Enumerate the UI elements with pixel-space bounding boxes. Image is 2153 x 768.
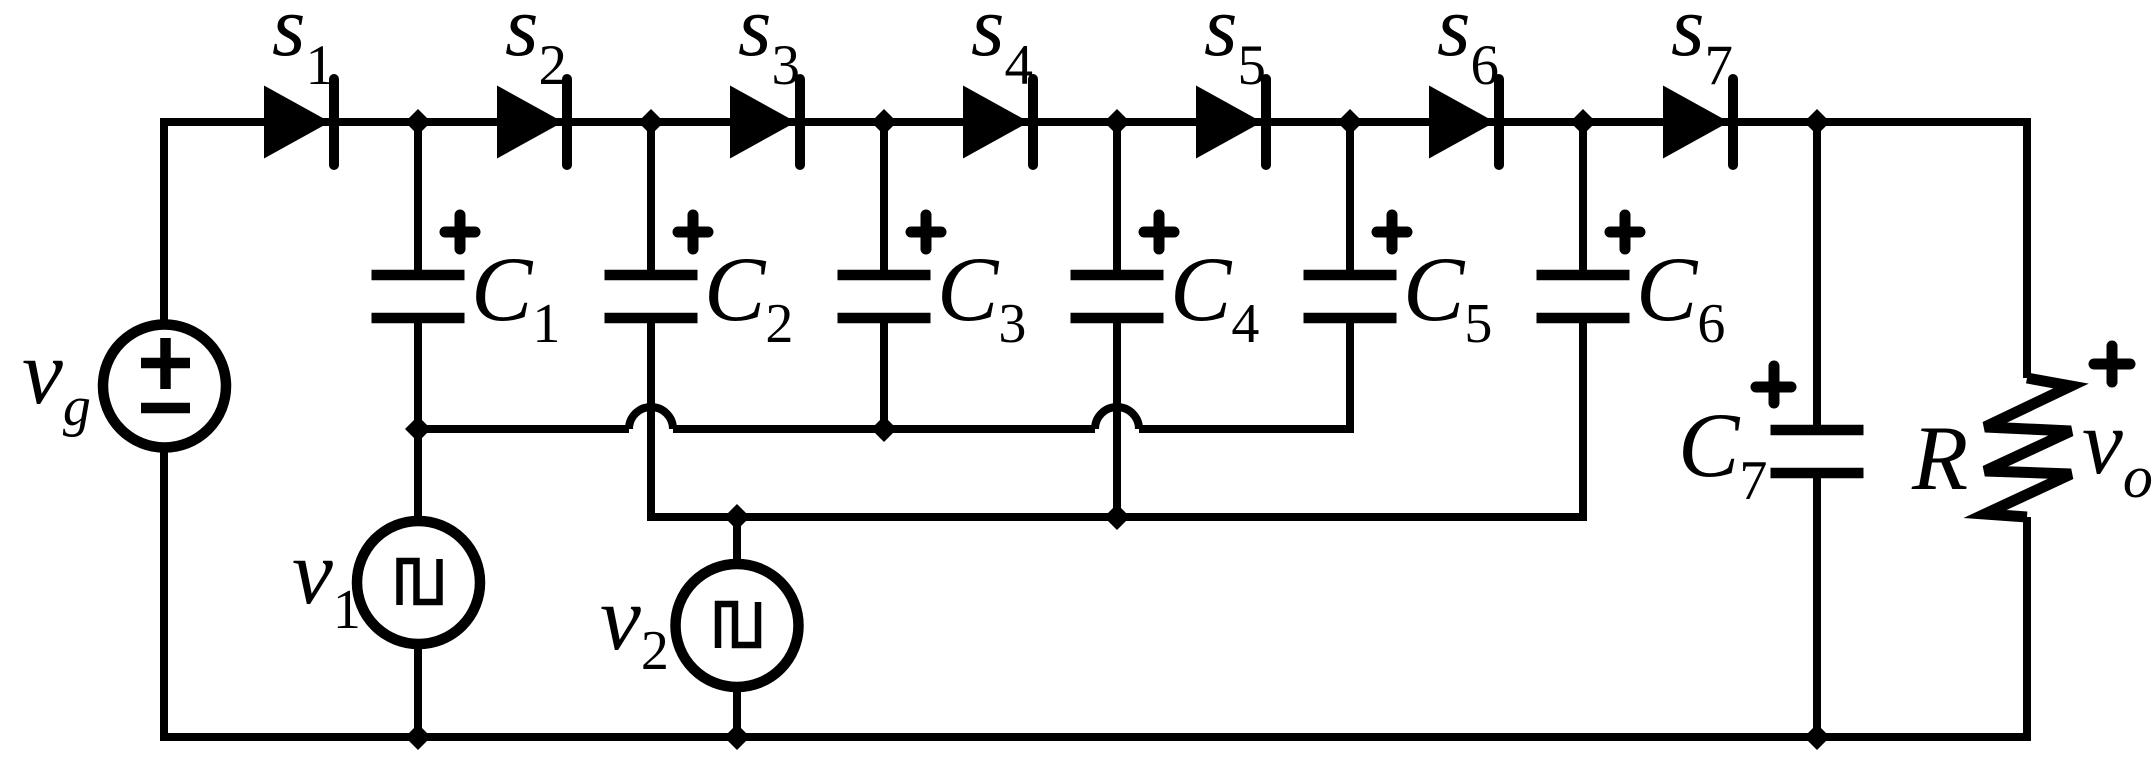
svg-text:C5: C5: [1403, 238, 1492, 355]
svg-text:C6: C6: [1636, 238, 1725, 355]
svg-text:v1: v1: [292, 521, 361, 641]
svg-text:s7: s7: [1671, 0, 1733, 97]
svg-text:v2: v2: [600, 567, 669, 682]
svg-text:C1: C1: [471, 238, 560, 355]
svg-text:s2: s2: [505, 0, 567, 97]
svg-text:C3: C3: [937, 238, 1026, 355]
svg-text:s4: s4: [971, 0, 1033, 97]
svg-text:C4: C4: [1170, 238, 1259, 355]
svg-text:s1: s1: [272, 0, 334, 97]
svg-text:R: R: [1911, 407, 1968, 509]
svg-text:s6: s6: [1437, 0, 1499, 97]
svg-text:vo: vo: [2082, 391, 2153, 510]
svg-text:C7: C7: [1678, 394, 1767, 512]
svg-text:s3: s3: [738, 0, 800, 97]
svg-text:C2: C2: [704, 238, 793, 355]
svg-text:s5: s5: [1204, 0, 1266, 97]
svg-text:vg: vg: [22, 321, 91, 438]
